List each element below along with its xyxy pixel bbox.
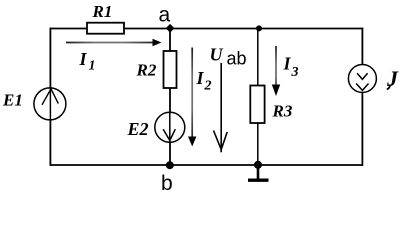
svg-text:E1: E1	[2, 90, 23, 109]
svg-text:a: a	[159, 4, 171, 27]
svg-text:b: b	[161, 172, 173, 195]
wire R2 to E2	[169, 88, 171, 113]
wire node a to top junction	[170, 28, 260, 30]
node B junction dot	[166, 161, 174, 169]
svg-text:ab: ab	[227, 48, 247, 68]
svg-text:R2: R2	[136, 61, 157, 80]
J chevron upper	[357, 73, 368, 79]
wire node a down to R2	[169, 29, 171, 52]
J descender tail	[387, 85, 390, 90]
J chevron lower	[356, 84, 368, 91]
E1 arrow barb left	[42, 89, 51, 105]
node A junction dot	[166, 24, 175, 33]
svg-text:E2: E2	[127, 119, 149, 139]
E1 internal wire	[49, 88, 51, 120]
ground bar	[248, 178, 269, 181]
wire left branch upper (corner to E1)	[49, 28, 51, 88]
voltage source E1	[34, 88, 66, 120]
wire top junction to top right corner	[260, 28, 363, 30]
resistor R2	[164, 51, 177, 88]
E1 arrow barb right	[51, 89, 58, 104]
wire bottom (left corner to right corner)	[50, 164, 362, 166]
ground stem	[257, 165, 260, 180]
svg-text:3: 3	[291, 65, 299, 80]
svg-text:I: I	[79, 49, 88, 69]
bottom junction dot (ground node)	[254, 161, 262, 169]
E2 internal wire	[169, 112, 171, 142]
wire right branch lower (J to bottom corner)	[361, 93, 363, 166]
wire top left (E1 top to R1)	[50, 28, 87, 30]
wire junction down to R3	[257, 29, 259, 86]
svg-text:U: U	[210, 45, 224, 65]
svg-text:R3: R3	[272, 102, 293, 121]
current arrow I2	[191, 48, 193, 138]
voltage arrow Uab	[220, 63, 222, 152]
E2 arrow barb left	[163, 129, 170, 140]
wire R3 to bottom junction	[257, 123, 259, 165]
wire left branch lower (E1 to bottom corner)	[49, 120, 51, 166]
svg-text:J: J	[386, 66, 399, 91]
current arrow I1	[66, 42, 153, 44]
svg-text:2: 2	[204, 79, 212, 94]
resistor R3	[250, 86, 264, 124]
current source J	[348, 65, 376, 93]
svg-text:R1: R1	[92, 2, 113, 21]
resistor R1	[87, 23, 124, 34]
svg-text:I: I	[283, 54, 292, 74]
voltage source E2	[155, 112, 185, 142]
svg-text:I: I	[196, 68, 205, 88]
current arrow I3	[275, 46, 277, 85]
wire E2 to node b	[169, 142, 171, 165]
svg-text:1: 1	[89, 59, 96, 74]
top junction dot (R3 branch)	[256, 25, 262, 31]
wire right branch upper (corner to J)	[361, 28, 363, 65]
wire R1 to node a	[124, 28, 170, 30]
E2 arrow barb right	[170, 129, 176, 140]
